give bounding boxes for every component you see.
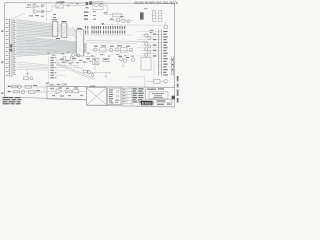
wire diagonal <box>56 64 94 80</box>
wire stubs below row <box>96 52 128 56</box>
bus wash upper <box>16 20 53 38</box>
resistor R6 <box>84 70 89 73</box>
zone letter B <box>1 31 3 32</box>
wire <box>146 80 154 82</box>
wire <box>56 59 82 61</box>
title block lines <box>140 96 175 106</box>
wire <box>56 64 78 66</box>
wire <box>79 90 86 92</box>
bus between ICs <box>58 25 76 37</box>
zone letter C <box>1 62 3 63</box>
analog box <box>47 86 86 100</box>
transistor Q11 <box>87 70 91 74</box>
bus fan lower <box>17 62 49 70</box>
sheet background <box>0 0 180 113</box>
Exidy logo <box>141 101 153 106</box>
label <box>80 94 84 97</box>
wire <box>117 22 119 25</box>
parts table <box>132 88 146 103</box>
component U6 <box>103 58 109 61</box>
resistor marks on rows <box>153 34 156 57</box>
transistor Q21 <box>69 90 72 93</box>
transistor Q22 <box>145 53 148 56</box>
wire <box>104 14 124 16</box>
transistor Q8 <box>72 54 75 57</box>
border frame <box>5 3 175 107</box>
resistor R8 <box>73 90 79 93</box>
audio row 1 <box>8 85 48 89</box>
node <box>33 40 35 42</box>
resistor R9 <box>27 39 31 41</box>
transistor Q19 <box>148 45 151 48</box>
transistor Q14 <box>123 59 126 62</box>
sheet number <box>172 96 175 99</box>
wire vertical <box>43 86 45 92</box>
wire <box>144 77 146 87</box>
transistor Q7 <box>129 48 133 52</box>
transistor Q10 <box>30 77 33 80</box>
label above X box <box>90 86 95 87</box>
label <box>131 55 134 58</box>
wire <box>128 76 145 79</box>
resistor R3 <box>100 48 107 52</box>
connector J2 <box>140 12 144 19</box>
gate U1A <box>34 5 44 9</box>
wire <box>90 72 110 74</box>
wire <box>92 5 93 7</box>
transistor Q13 <box>119 58 122 61</box>
wire <box>56 67 84 69</box>
resistor R10 <box>27 42 31 44</box>
capacitor C1 <box>33 3 36 4</box>
wire <box>107 5 109 14</box>
IC U4 <box>60 21 68 38</box>
title text <box>147 88 164 89</box>
transistor Q1 <box>116 18 120 22</box>
bus wash main <box>16 36 87 56</box>
revision table <box>122 88 132 106</box>
void X box <box>86 88 106 106</box>
wire <box>25 6 33 8</box>
label <box>117 45 122 46</box>
label <box>53 17 56 18</box>
wire <box>39 11 52 13</box>
label <box>104 12 108 13</box>
gate U1B <box>34 10 44 14</box>
wire <box>52 6 56 11</box>
node <box>52 88 54 90</box>
wire vertical <box>37 86 39 92</box>
audio row 2 <box>8 90 48 94</box>
wire <box>32 4 34 13</box>
wire <box>160 80 164 82</box>
zone letter D <box>1 93 3 94</box>
wire <box>44 84 62 86</box>
label <box>29 48 32 49</box>
capacitor C2 <box>68 4 70 7</box>
transistor Q21 <box>148 50 151 53</box>
transistor Q15 <box>164 22 168 29</box>
wire <box>94 57 96 70</box>
label <box>94 46 98 47</box>
node tick <box>109 72 111 74</box>
label <box>93 18 96 21</box>
bus line <box>85 34 134 36</box>
transistor Q6 <box>115 48 119 52</box>
IC U5 <box>75 28 85 56</box>
wire riser <box>48 56 50 82</box>
label <box>86 7 89 8</box>
bus hatch <box>42 27 90 51</box>
resistor pack RP1 <box>152 10 156 21</box>
label <box>150 32 153 33</box>
transistor Q18 <box>145 42 148 45</box>
label <box>101 45 106 46</box>
scale cell text <box>157 100 171 104</box>
ground <box>105 76 107 78</box>
driver row wires <box>137 32 158 56</box>
wire <box>13 13 25 18</box>
transistor Q20 <box>145 48 148 51</box>
wire stubs <box>52 63 84 66</box>
header text top right <box>134 1 179 5</box>
small component column 1 <box>63 57 66 63</box>
node <box>33 43 35 45</box>
label <box>53 14 56 15</box>
bus fan main <box>17 36 87 56</box>
label <box>57 39 60 42</box>
wire <box>85 56 95 58</box>
label row <box>60 58 90 64</box>
transistor Q12 <box>91 73 94 76</box>
wire <box>63 5 86 7</box>
IC U3 <box>51 17 59 36</box>
label <box>110 19 114 20</box>
amp module U2 <box>93 2 103 10</box>
transistor Q17 <box>148 36 151 39</box>
transistor Q24 <box>131 58 135 62</box>
label <box>27 6 29 9</box>
wire <box>46 3 48 21</box>
wire diagonal <box>64 62 88 72</box>
resistor pack RP2 <box>158 10 162 21</box>
label <box>93 14 96 17</box>
connector J5 at border <box>172 57 174 76</box>
label <box>150 30 154 31</box>
label row in box <box>50 88 78 97</box>
label <box>27 5 31 6</box>
transistor Q4 <box>94 48 98 52</box>
wire <box>86 40 149 43</box>
label <box>126 57 129 58</box>
wire <box>48 90 57 92</box>
wire <box>62 90 66 92</box>
wire <box>103 4 108 6</box>
transformer T1 <box>89 1 92 4</box>
amplifier sub-box <box>108 88 123 105</box>
label <box>71 2 74 5</box>
svg-text:Exidy: Exidy <box>142 101 153 105</box>
label <box>56 38 60 39</box>
capacitor C3 <box>26 72 30 76</box>
label <box>118 56 122 57</box>
transistor Q16 <box>145 34 148 37</box>
lower sub-box <box>141 58 151 71</box>
label <box>60 1 65 2</box>
relay K1 <box>93 58 100 64</box>
title box <box>149 92 168 99</box>
label <box>110 46 114 47</box>
transistor Q5 <box>109 48 113 52</box>
bus label row 2 <box>85 31 125 35</box>
wire <box>56 62 88 64</box>
label column <box>84 12 89 20</box>
label above box <box>46 83 67 86</box>
wire <box>27 68 29 72</box>
bus fan upper <box>17 20 53 37</box>
transistor Q3 <box>127 20 130 23</box>
speaker LS1 <box>86 2 89 5</box>
transistor Q9 <box>77 54 80 57</box>
net labels column <box>50 57 66 78</box>
node <box>62 84 64 86</box>
label scatter mid band <box>47 52 127 57</box>
label <box>102 23 105 24</box>
wire <box>96 57 98 66</box>
svg-text:SOUND BOARD 994-0001 REV A: SOUND BOARD 994-0001 REV A <box>134 1 179 5</box>
wire diagonal <box>58 63 95 78</box>
wire <box>86 42 137 45</box>
resistor R4 <box>121 47 128 52</box>
label <box>120 16 124 17</box>
net labels right of J4 <box>163 31 168 76</box>
wire <box>92 49 133 51</box>
wire <box>108 20 133 22</box>
connector J1 <box>6 19 16 78</box>
op-amp U7 <box>56 89 62 94</box>
transistor Q20 <box>65 90 68 93</box>
label <box>29 46 33 47</box>
resistor R2 <box>113 13 122 17</box>
stamp text block <box>3 97 22 104</box>
connector J4 bar <box>158 30 161 76</box>
doc number vertical text right margin <box>177 76 179 103</box>
wire riser <box>153 57 155 75</box>
resistor R5 <box>24 77 29 80</box>
label <box>76 2 79 5</box>
resistor R7 <box>154 79 161 83</box>
wire <box>122 62 124 66</box>
wire <box>102 24 163 26</box>
ground <box>122 65 124 67</box>
label row above ICs <box>29 15 44 17</box>
trimpot R1 <box>56 2 63 8</box>
transistor Q2 <box>122 19 126 23</box>
small component column 2 <box>70 57 73 63</box>
label <box>126 46 130 47</box>
wire <box>105 73 107 77</box>
label <box>93 10 96 13</box>
label <box>90 60 92 63</box>
label <box>144 7 148 10</box>
bus label row 1 <box>85 26 125 30</box>
transistor Q23 <box>164 80 168 84</box>
